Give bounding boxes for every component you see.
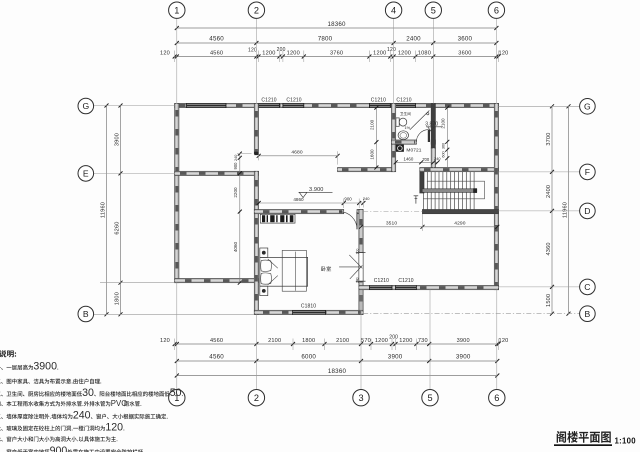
- bedroom bottom wall: [254, 310, 363, 314]
- svg-text:700: 700: [422, 157, 430, 162]
- window C1210 #5: [369, 285, 392, 290]
- dim column 2100/1600 (hall): [370, 106, 379, 170]
- svg-text:G: G: [584, 101, 591, 111]
- svg-text:120: 120: [105, 421, 123, 433]
- toilet tank: [396, 118, 399, 126]
- stair down arrow: [414, 196, 419, 204]
- grid bubble 6 bottom: [489, 390, 505, 406]
- grid bubble 2 top: [248, 2, 264, 18]
- dim row 4860/900/240 (door M0921): [257, 196, 371, 208]
- grid bubble B left: [78, 306, 94, 322]
- washing machine: [396, 145, 404, 152]
- grid bubble B right: [580, 306, 596, 322]
- wardrobe: [260, 214, 295, 223]
- svg-text:4060: 4060: [233, 241, 238, 252]
- svg-text:3.900: 3.900: [309, 187, 324, 193]
- svg-text:2100: 2100: [441, 118, 446, 129]
- svg-text:C1210: C1210: [261, 97, 276, 103]
- svg-text:50: 50: [170, 387, 182, 399]
- svg-text:240: 240: [234, 155, 238, 161]
- note line 3: [0, 391, 82, 396]
- svg-text:2400: 2400: [406, 36, 421, 43]
- dim row top detailed: [160, 47, 508, 59]
- svg-text:4560: 4560: [209, 36, 224, 43]
- svg-text:2: 2: [254, 393, 259, 403]
- svg-text:18360: 18360: [327, 21, 346, 28]
- svg-text:1200: 1200: [373, 50, 386, 56]
- extension grid 2 top: [255, 19, 257, 104]
- grid bubble G right: [580, 99, 596, 115]
- window C1810: [292, 310, 326, 315]
- grid bubble 2 bottom: [248, 390, 264, 406]
- svg-text:C1210: C1210: [396, 97, 411, 103]
- extension grid B left: [94, 313, 255, 315]
- svg-text:6260: 6260: [115, 221, 121, 234]
- svg-text:2200: 2200: [233, 187, 238, 198]
- wall piece right of door M0921: [357, 210, 363, 214]
- note line 8: [0, 449, 49, 452]
- window C1210 #3: [369, 103, 391, 108]
- svg-text:C1210: C1210: [286, 97, 301, 103]
- svg-text:240: 240: [434, 156, 441, 161]
- dim row bottom 4560/6000/3900/3900: [175, 354, 500, 363]
- window top-left room: [186, 103, 226, 108]
- svg-text:2400: 2400: [546, 185, 552, 198]
- dim row 3510/4290: [359, 214, 499, 231]
- window C1210 #4: [394, 103, 416, 108]
- svg-text:3900: 3900: [115, 133, 121, 146]
- bathroom bottom wall w/ door M0721: [392, 140, 417, 144]
- nightstand 1: [260, 248, 268, 257]
- svg-text:3600: 3600: [458, 50, 471, 56]
- svg-text:3900: 3900: [33, 361, 57, 373]
- blanket fold lines: [268, 259, 278, 285]
- svg-text:M0721: M0721: [406, 147, 421, 153]
- bed outline: [260, 257, 308, 286]
- svg-text:4: 4: [391, 6, 396, 16]
- opening mark leader arrow: [339, 253, 365, 282]
- note line 6: [0, 426, 105, 431]
- elevation mark 3.870: [425, 122, 442, 131]
- extension line left-room bottom: [100, 282, 175, 284]
- grid bubble E left: [78, 166, 94, 182]
- extension grid C right: [499, 286, 580, 288]
- svg-text:600: 600: [442, 151, 446, 157]
- dim 4680 (hall width): [257, 150, 340, 165]
- svg-text:1%: 1%: [404, 125, 410, 130]
- grid bubble 1 top: [169, 2, 185, 18]
- extension grid D right: [499, 210, 580, 212]
- svg-text:2100: 2100: [268, 338, 281, 344]
- svg-text:18360: 18360: [328, 368, 347, 375]
- note line 4: [0, 401, 110, 406]
- extension grid 4 top: [393, 19, 395, 104]
- nightstand 2: [260, 286, 268, 295]
- svg-text:120: 120: [499, 50, 509, 56]
- extension grid 5 top: [432, 19, 434, 104]
- elevation mark 3.900: [299, 187, 333, 197]
- pillow 1: [261, 260, 272, 271]
- svg-text:240: 240: [355, 277, 359, 283]
- grid bubble 1 bottom: [169, 390, 185, 406]
- svg-text:4290: 4290: [454, 221, 465, 227]
- title underline: [554, 444, 612, 446]
- svg-text:6: 6: [494, 6, 499, 16]
- grid bubble G left: [78, 98, 94, 114]
- svg-text:120: 120: [160, 338, 170, 344]
- dim row top 4560/7800/2400/3600: [175, 36, 499, 45]
- svg-text:3900: 3900: [456, 354, 471, 361]
- floor drain: [427, 113, 429, 115]
- svg-text:C1810: C1810: [301, 303, 316, 309]
- extension grid B right (centerline): [363, 313, 579, 315]
- svg-text:3510: 3510: [386, 221, 397, 227]
- svg-text:6000: 6000: [301, 354, 316, 361]
- bedroom right wall (grid 3): [359, 210, 363, 315]
- extension grid 2 bottom: [255, 315, 257, 390]
- svg-text:5: 5: [431, 6, 436, 16]
- outer wall top (grid G): [175, 103, 499, 107]
- label 卫生间 (bathroom): [400, 112, 411, 115]
- svg-text:5: 5: [427, 393, 432, 403]
- door M0921 swing arc: [340, 212, 358, 230]
- interior wall grid E: [175, 171, 259, 175]
- svg-text:4560: 4560: [210, 50, 223, 56]
- svg-text:900: 900: [355, 248, 359, 254]
- svg-text:3600: 3600: [458, 36, 473, 43]
- exterior wall left-room bottom: [175, 279, 259, 283]
- svg-text:1500: 1500: [546, 294, 552, 307]
- svg-text:1:100: 1:100: [615, 437, 637, 446]
- grid bubble F right: [580, 164, 596, 180]
- stair handrail end cap: [473, 188, 477, 193]
- window C1210 #1: [258, 103, 280, 108]
- svg-text:900: 900: [344, 197, 352, 202]
- door M0921 leaf: [356, 212, 358, 230]
- wall grid F left segment: [338, 168, 395, 172]
- svg-text:1460: 1460: [404, 156, 414, 161]
- note line 5: [0, 414, 72, 419]
- wall piece at grid5 below door M0721: [431, 140, 435, 144]
- stair rail outline: [423, 181, 484, 199]
- svg-text:120: 120: [499, 338, 509, 344]
- extension grid E left: [94, 172, 175, 174]
- svg-text:1200: 1200: [262, 50, 275, 56]
- svg-text:4360: 4360: [546, 242, 552, 255]
- svg-text:1200: 1200: [398, 50, 411, 56]
- stair middle handrail: [422, 189, 477, 193]
- blanket line: [295, 252, 297, 291]
- svg-text:200: 200: [277, 47, 286, 53]
- title 阁楼平面图: [557, 431, 611, 443]
- svg-text:G: G: [82, 101, 89, 111]
- dim column 240/900/2200/4060: [233, 152, 252, 285]
- svg-text:C1210: C1210: [374, 278, 389, 284]
- extension grid G left: [94, 105, 175, 107]
- svg-text:4860: 4860: [293, 197, 304, 202]
- wall grid 2 lower (bedroom left): [254, 171, 258, 314]
- svg-text:1800: 1800: [115, 292, 121, 305]
- svg-text:E: E: [83, 169, 89, 179]
- note line 7: [0, 436, 117, 441]
- svg-text:2100: 2100: [336, 338, 349, 344]
- svg-text:1200: 1200: [375, 338, 388, 344]
- dim right 3700/2400/4360/1500: [546, 104, 554, 315]
- extension grid F right: [499, 171, 580, 173]
- svg-text:3760: 3760: [330, 50, 343, 56]
- window edge ticks bottom: [175, 339, 499, 351]
- svg-text:1800: 1800: [302, 338, 315, 344]
- window C1210 #2: [283, 103, 305, 108]
- shower partition diagonal: [410, 111, 430, 130]
- svg-text:1200: 1200: [399, 338, 412, 344]
- stair bottom wall (grid D, dark): [422, 210, 498, 214]
- svg-text:6: 6: [494, 393, 499, 403]
- note line 1: [0, 365, 33, 370]
- stair left wall stub: [420, 172, 424, 193]
- svg-text:7800: 7800: [318, 36, 333, 43]
- centerline grid D between bedroom and stair: [363, 211, 422, 213]
- svg-text:B: B: [585, 309, 591, 319]
- svg-text:2100: 2100: [370, 119, 375, 130]
- svg-text:570: 570: [361, 338, 371, 344]
- grid bubble 5 top: [425, 2, 441, 18]
- grid bubble D right: [580, 203, 596, 219]
- label 卧室 (bedroom): [321, 266, 331, 271]
- svg-text:2: 2: [254, 6, 259, 16]
- interior wall grid 2 upper: [254, 103, 258, 153]
- wash basin: [398, 131, 408, 140]
- extension grid 1 bottom: [176, 283, 178, 390]
- dim right 11960: [563, 104, 571, 315]
- svg-text:3.870: 3.870: [425, 122, 438, 128]
- svg-text:3: 3: [358, 393, 363, 403]
- svg-text:F: F: [585, 167, 590, 177]
- grid bubble 3 bottom: [353, 390, 369, 406]
- dim column right room: [441, 106, 450, 168]
- extension grid 1 top: [176, 19, 178, 104]
- extension grid 5 bottom: [429, 290, 431, 390]
- extension grid 3 bottom: [360, 290, 362, 390]
- window C1210 #6: [395, 285, 417, 290]
- svg-text:900: 900: [233, 162, 238, 170]
- svg-text:1600: 1600: [370, 149, 375, 160]
- svg-text:3900: 3900: [388, 354, 403, 361]
- wall grid F right segment (stair top): [420, 168, 499, 172]
- grid bubble C right: [580, 279, 596, 295]
- rug at bed foot: [282, 250, 306, 291]
- pillow 2: [261, 273, 272, 284]
- dim left 11960: [101, 104, 109, 317]
- svg-text:4560: 4560: [210, 338, 223, 344]
- svg-text:3700: 3700: [546, 132, 552, 145]
- grid bubble 6 top: [488, 2, 504, 18]
- svg-text:B: B: [83, 309, 89, 319]
- door M0721 leaf: [428, 130, 430, 142]
- note line 2: [0, 379, 101, 384]
- dim row bottom 18360: [175, 368, 500, 377]
- svg-text:1: 1: [174, 6, 179, 16]
- svg-text:1080: 1080: [418, 50, 431, 56]
- dim row top 18360: [175, 21, 499, 30]
- dim left 3900/6260/1800: [115, 104, 123, 317]
- notes heading 说明:: [0, 350, 16, 357]
- door M0721 swing arc: [416, 130, 428, 142]
- svg-text:C1210: C1210: [371, 97, 386, 103]
- extension grid G right: [499, 105, 580, 107]
- outer wall left (grid 1): [175, 103, 179, 282]
- window edge ticks top: [175, 51, 499, 63]
- svg-text:11960: 11960: [101, 202, 107, 218]
- bedroom top wall (grid D) w/ door opening: [254, 210, 343, 214]
- toilet bowl: [399, 118, 407, 126]
- svg-text:4560: 4560: [209, 354, 224, 361]
- svg-text:1200: 1200: [287, 50, 300, 56]
- stair treads: [423, 172, 474, 210]
- opening in bedroom right wall: [359, 253, 363, 282]
- svg-text:120: 120: [387, 47, 396, 53]
- outer wall right (grid 6): [494, 103, 498, 289]
- svg-text:200: 200: [389, 335, 398, 341]
- svg-text:11960: 11960: [563, 202, 569, 218]
- svg-text:730: 730: [418, 338, 428, 344]
- wall grid C (bottom of right wing): [359, 286, 499, 290]
- extension grid 6 bottom: [496, 290, 498, 390]
- dim row bottom detailed: [160, 335, 508, 346]
- wall grid 5 lower: [431, 148, 435, 168]
- svg-text:240: 240: [73, 410, 91, 422]
- svg-text:D: D: [584, 206, 590, 216]
- svg-text:900: 900: [50, 445, 68, 452]
- svg-text:120: 120: [248, 48, 257, 54]
- extension grid 6 top: [495, 19, 497, 104]
- svg-text:30: 30: [82, 387, 94, 399]
- column cap at grid2 wall end: [254, 152, 258, 155]
- grid bubble 5 bottom: [422, 390, 438, 406]
- wall grid 5 upper (solid): [431, 103, 435, 148]
- svg-text:360: 360: [442, 143, 446, 149]
- grid bubble 4 top: [385, 2, 401, 18]
- svg-text:C: C: [584, 282, 590, 292]
- svg-text:4680: 4680: [291, 150, 302, 156]
- svg-text:240: 240: [363, 196, 370, 201]
- bathroom left wall (grid 4): [392, 103, 396, 171]
- dim row 1460/700/240 (bath): [394, 156, 442, 165]
- svg-text:C1210: C1210: [398, 278, 413, 284]
- svg-text:3900: 3900: [457, 338, 470, 344]
- svg-text:120: 120: [160, 50, 170, 56]
